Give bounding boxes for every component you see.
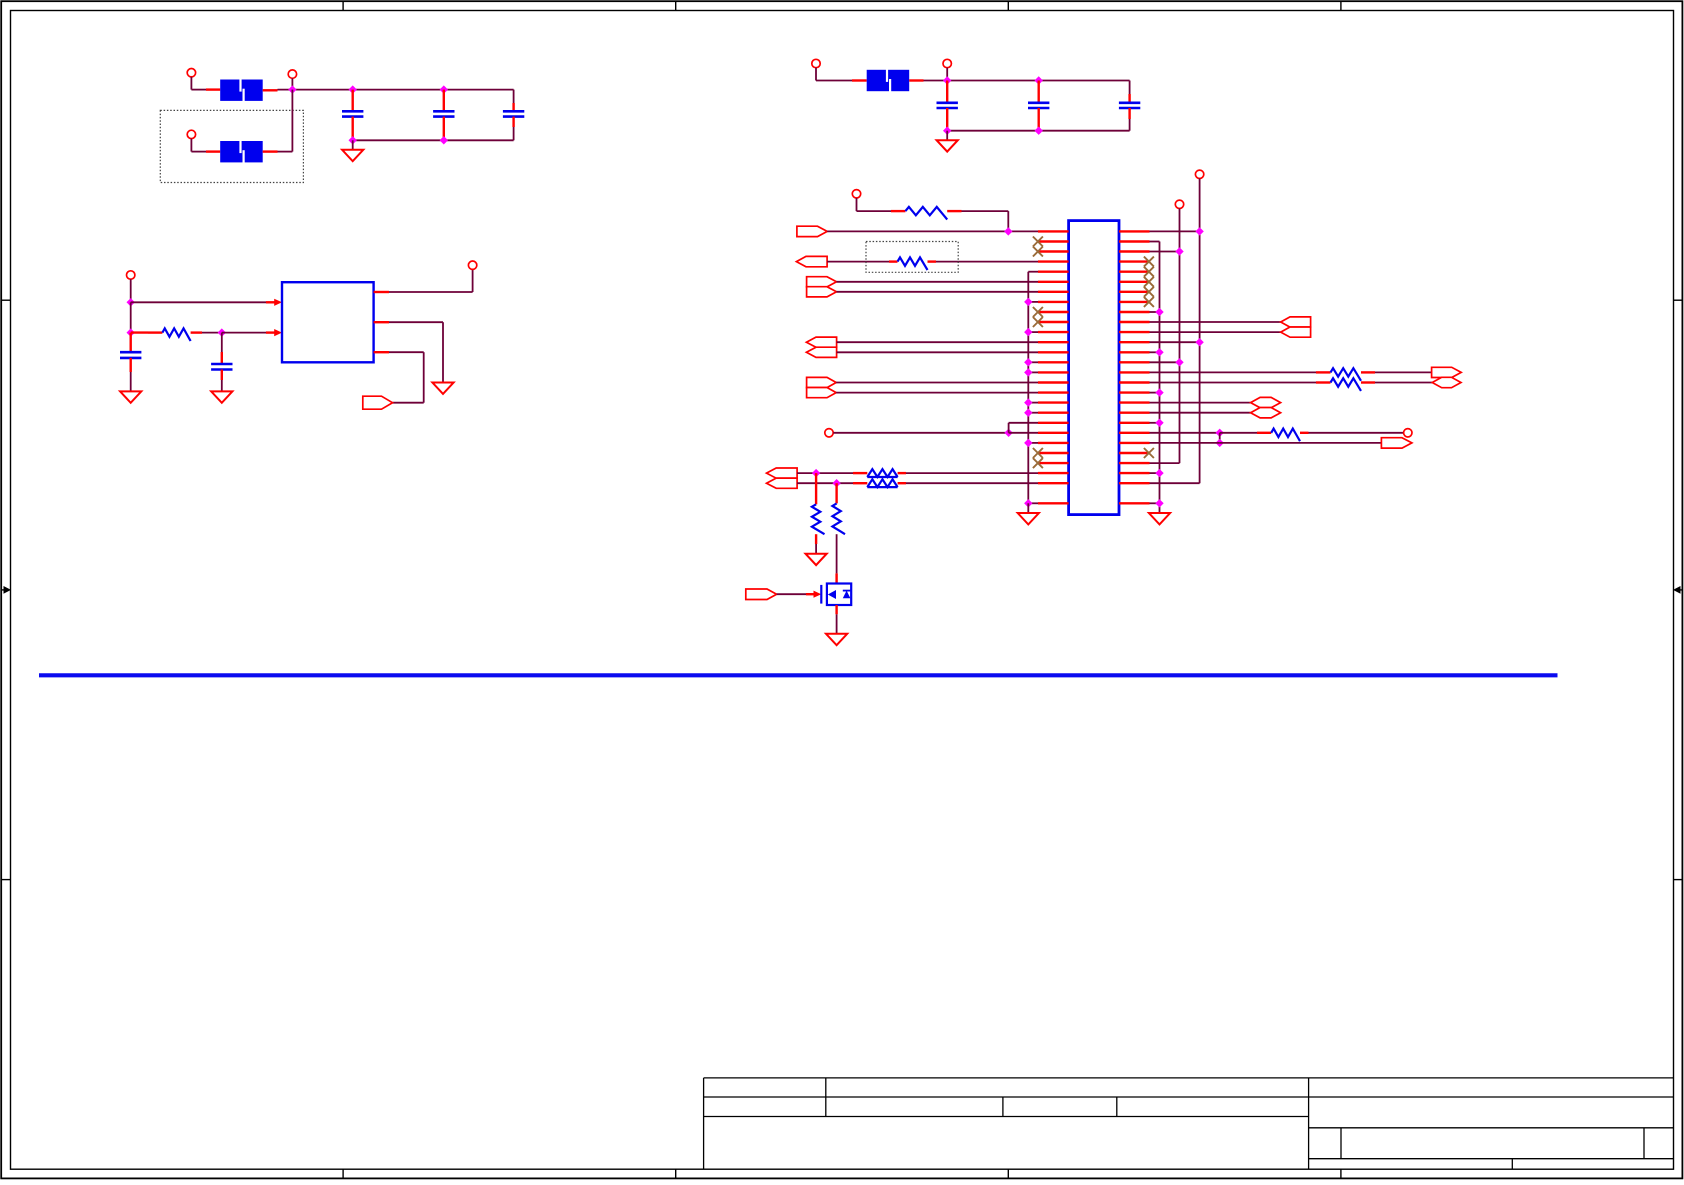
dashed outline box (160, 110, 303, 182)
transistor drain pin (835, 573, 837, 583)
port flag P4 (double) (806, 337, 836, 347)
junction (127, 328, 135, 336)
junction (1175, 247, 1183, 255)
wire net row20 (1009, 422, 1038, 424)
wire (906, 482, 1038, 484)
CN1 left pin 22 (1038, 442, 1069, 444)
CN1 right pin 16 (1119, 381, 1150, 383)
wire (1129, 81, 1131, 95)
port flag P10 (1432, 377, 1461, 387)
U1 output pin (374, 351, 389, 353)
wire (836, 614, 838, 634)
CN1 right pin 4 (1119, 260, 1150, 262)
wire (1219, 433, 1221, 443)
capacitor C2 pin (443, 117, 445, 141)
CN1 left pin 15 (1038, 371, 1069, 373)
junction (1175, 358, 1183, 366)
connector pin J3 (187, 130, 195, 138)
CN1 left pin 18 (1038, 401, 1069, 403)
wire net row7 (837, 291, 1039, 293)
connector pin J7 (468, 261, 476, 269)
title block (704, 1078, 1674, 1169)
gate arrowhead (814, 591, 822, 598)
junction (1024, 298, 1032, 306)
CN1 right pin 11 (1119, 331, 1150, 333)
CN1 left pin 12 (1038, 341, 1069, 343)
wire net row14 right (1150, 361, 1180, 363)
wire (857, 210, 892, 212)
wire (263, 89, 278, 91)
port flag P8 (double) (1281, 317, 1311, 327)
wire net row2 right (1150, 241, 1160, 243)
wire (291, 90, 293, 152)
ground (826, 634, 847, 645)
wire (1309, 432, 1404, 434)
U1 output pin (374, 321, 389, 323)
junction (943, 127, 951, 135)
capacitor C2 (433, 111, 454, 116)
capacitor C5 (1028, 103, 1049, 108)
wire (1009, 432, 1038, 434)
ferrite bead FB1 (220, 79, 263, 102)
junction (127, 298, 135, 306)
wire (806, 593, 814, 595)
wire net row24 right (1150, 462, 1180, 464)
wire net row25 (797, 472, 853, 474)
wire net row4 (827, 261, 889, 263)
transistor source pin (835, 605, 837, 614)
CN1 right pin 12 (1119, 341, 1150, 343)
CN1 left pin 27 (1038, 502, 1069, 504)
wire (130, 372, 132, 391)
wire (222, 332, 266, 334)
CN1 left pin 3 (1038, 250, 1069, 252)
capacitor C1 pin (352, 90, 354, 112)
CN1 right pin 18 (1119, 401, 1150, 403)
capacitor C3 pin (512, 117, 514, 127)
wire (947, 130, 1129, 132)
wire bus C (1199, 179, 1201, 484)
wire (1028, 271, 1038, 273)
wire (191, 331, 202, 333)
wire (1150, 311, 1160, 313)
CN1 left pin 11 (1038, 331, 1069, 333)
wire bus left (1027, 272, 1029, 504)
wire (962, 210, 1009, 212)
wire (353, 139, 514, 141)
wire (856, 198, 858, 211)
junction (1216, 439, 1224, 447)
CN1 right pin 19 (1119, 412, 1150, 414)
wire (946, 131, 948, 141)
input arrowhead (274, 299, 282, 306)
zone tick marks top and bottom edges (342, 1, 344, 10)
connector pin J6 (127, 271, 135, 279)
capacitor C3 (503, 111, 524, 116)
wire net row15 (1150, 371, 1317, 373)
transistor Q1 (MOSFET) (821, 584, 851, 606)
wire (891, 210, 905, 212)
wire (278, 89, 514, 91)
wire (777, 593, 806, 595)
ground (806, 554, 827, 565)
port flag P7 (746, 589, 777, 600)
junction (1195, 338, 1203, 346)
wire net row10 (1150, 321, 1281, 323)
wire net row16 (1150, 382, 1317, 384)
wire net row3 right (1150, 251, 1180, 253)
junction (1024, 439, 1032, 447)
junction (1155, 388, 1163, 396)
wire (1375, 382, 1432, 384)
wire net row21 right (1150, 432, 1220, 434)
CN1 right pin 20 (1119, 422, 1150, 424)
capacitor C7 (120, 352, 141, 358)
connector CN1 body (1069, 221, 1119, 515)
ground (937, 140, 958, 151)
wire (816, 80, 852, 82)
junction (1024, 409, 1032, 417)
no-connect X left pin 2 (1033, 237, 1043, 247)
resistor R8 (1331, 368, 1361, 381)
connector pin J8 (852, 190, 860, 198)
wire (889, 260, 898, 262)
wire (1008, 423, 1010, 433)
CN1 left pin 21 (1038, 432, 1069, 434)
wire (836, 534, 838, 573)
ground (120, 391, 141, 402)
wire (924, 80, 1130, 82)
wire (190, 77, 192, 90)
port flag P12 (1381, 438, 1412, 448)
CN1 right pin 21 (1119, 432, 1150, 434)
wire (1257, 432, 1271, 434)
capacitor C4 (937, 103, 958, 108)
wire (1361, 371, 1375, 373)
regulator IC U1 (282, 282, 374, 362)
CN1 left pin 26 (1038, 482, 1069, 484)
wire (442, 322, 444, 382)
wire (389, 321, 443, 323)
wire net row1 right (1150, 230, 1200, 232)
wire (1028, 371, 1038, 373)
no-connect X right pin 5 (1144, 267, 1154, 277)
wire (1150, 472, 1160, 474)
CN1 left pin 6 (1038, 281, 1069, 283)
junction (1155, 348, 1163, 356)
wire (1129, 119, 1131, 131)
wire (1028, 502, 1038, 504)
capacitor C4 pin (946, 81, 948, 103)
no-connect X left pin 3 (1033, 247, 1043, 257)
junction (349, 85, 357, 93)
port flag P11b (1251, 408, 1281, 418)
wire (936, 261, 1038, 263)
connector pin J5 (943, 59, 951, 67)
wire (1220, 432, 1257, 434)
no-connect X right pin 7 (1144, 287, 1154, 297)
port flag P5 (double) (807, 377, 837, 387)
junction (832, 479, 840, 487)
wire bus A (1159, 242, 1161, 514)
capacitor C6 pin (1128, 94, 1130, 103)
junction (812, 469, 820, 477)
capacitor C7 pin (129, 358, 131, 372)
CN1 left pin 16 (1038, 381, 1069, 383)
wire (130, 279, 132, 302)
ferrite bead FB2 (220, 141, 263, 164)
wire net row22 right (1150, 442, 1220, 444)
resistor R5 (867, 479, 897, 487)
wire (1028, 361, 1038, 363)
resistor R7 pin (835, 483, 837, 503)
CN1 right pin 14 (1119, 361, 1150, 363)
wire (291, 78, 293, 89)
resistor R2 (905, 207, 947, 220)
CN1 left pin 1 (1038, 230, 1069, 232)
wire net row12 (837, 341, 1038, 343)
wire (389, 291, 473, 293)
capacitor C5 pin (1037, 108, 1039, 131)
wire (206, 150, 220, 152)
CN1 left pin 7 (1038, 291, 1069, 293)
CN1 left pin 9 (1038, 311, 1069, 313)
wire net row21 (833, 432, 1008, 434)
connector pin J12 (1404, 429, 1412, 437)
resistor R10 (1271, 429, 1300, 442)
junction (1024, 328, 1032, 336)
CN1 right pin 6 (1119, 281, 1150, 283)
port flag P1 (797, 226, 827, 236)
junction (1155, 419, 1163, 427)
no-connect X left pin 23 (1033, 448, 1043, 458)
centering arrow right (1678, 589, 1682, 591)
CN1 left pin 17 (1038, 391, 1069, 393)
wire (898, 472, 906, 474)
resistor R1 (162, 328, 190, 341)
junction (440, 136, 448, 144)
wire (1361, 381, 1375, 383)
wire (278, 151, 293, 153)
wire (352, 140, 354, 150)
junction (288, 85, 296, 93)
connector pin J4 (812, 59, 820, 67)
CN1 right pin 17 (1119, 391, 1150, 393)
wire (853, 482, 867, 484)
wire (190, 139, 192, 152)
wire net row12 right (1150, 341, 1200, 343)
wire (1150, 392, 1160, 394)
resistor R6 pin (815, 473, 817, 504)
wire (472, 270, 474, 293)
capacitor C5 pin (1037, 81, 1039, 103)
wire (266, 331, 275, 333)
wire (191, 89, 206, 91)
junction (1216, 429, 1224, 437)
wire (1027, 503, 1029, 513)
connector pin J9 (825, 429, 833, 437)
CN1 right pin 24 (1119, 462, 1150, 464)
no-connect X right pin 8 (1144, 297, 1154, 307)
no-connect X left pin 10 (1033, 317, 1043, 327)
CN1 left pin 14 (1038, 361, 1069, 363)
wire (906, 472, 1038, 474)
junction (1035, 76, 1043, 84)
wire (1316, 381, 1331, 383)
CN1 right pin 8 (1119, 301, 1150, 303)
wire (1028, 301, 1038, 303)
wire (853, 472, 867, 474)
wire (1375, 371, 1432, 373)
wire (389, 351, 424, 353)
capacitor C1 (342, 111, 363, 116)
wire (1028, 412, 1038, 414)
wire (202, 332, 222, 334)
ground (211, 391, 232, 402)
junction (1155, 308, 1163, 316)
capacitor C1 pin (352, 117, 354, 141)
centering arrow left (1, 589, 5, 591)
CN1 right pin 26 (1119, 482, 1150, 484)
wire (1028, 331, 1038, 333)
CN1 right pin 5 (1119, 271, 1150, 273)
CN1 right pin 23 (1119, 452, 1150, 454)
CN1 left pin 23 (1038, 452, 1069, 454)
wire (1150, 351, 1160, 353)
CN1 right pin 7 (1119, 291, 1150, 293)
junction (1024, 499, 1032, 507)
no-connect X left pin 24 (1033, 458, 1043, 468)
ground (342, 150, 363, 161)
ferrite bead FB3 (867, 69, 910, 92)
connector pin J1 (187, 69, 195, 77)
capacitor C7 pin (129, 333, 131, 353)
junction (1024, 358, 1032, 366)
capacitor C6 (1119, 103, 1140, 108)
junction (218, 328, 226, 336)
junction (943, 76, 951, 84)
CN1 left pin 13 (1038, 351, 1069, 353)
wire net row26 right (1150, 482, 1200, 484)
wire net row19 (1150, 412, 1251, 414)
connector pin J2 (288, 70, 296, 78)
wire (393, 402, 424, 404)
input arrowhead (274, 329, 282, 336)
CN1 right pin 15 (1119, 371, 1150, 373)
capacitor C8 (211, 364, 232, 370)
junction (1024, 368, 1032, 376)
output port flag (363, 396, 393, 409)
port flag P2 (796, 256, 827, 266)
wire (946, 68, 948, 81)
wire (815, 544, 817, 554)
port flag P3 (double) (807, 277, 837, 287)
capacitor C8 pin (221, 352, 223, 364)
no-connect X right pin 4 (1144, 257, 1154, 267)
capacitor C2 pin (443, 90, 445, 112)
wire (206, 88, 220, 90)
CN1 right pin 9 (1119, 311, 1150, 313)
wire (513, 90, 515, 103)
connector pin J10 (1195, 170, 1203, 178)
connector pin J11 (1175, 200, 1183, 208)
dashed outline box around R3 (866, 242, 958, 273)
wire (1028, 402, 1038, 404)
CN1 left pin 2 (1038, 240, 1069, 242)
CN1 left pin 8 (1038, 301, 1069, 303)
wire net row11 (1150, 331, 1281, 333)
wire (928, 260, 937, 262)
wire net row13 (837, 351, 1038, 353)
wire (423, 352, 425, 403)
junction (1035, 127, 1043, 135)
wire bus B (1179, 209, 1181, 464)
wire (191, 151, 206, 153)
wire (815, 68, 817, 81)
CN1 right pin 22 (1119, 442, 1150, 444)
port flag P11a (1251, 397, 1281, 407)
wire (1028, 442, 1038, 444)
resistor R6 (812, 504, 825, 534)
resistor R3 (898, 257, 928, 270)
wire (1300, 432, 1309, 434)
wire net row18 (1150, 402, 1251, 404)
port flag P9 (1432, 367, 1462, 377)
ground (432, 383, 453, 394)
CN1 right pin 10 (1119, 321, 1150, 323)
wire (131, 331, 148, 333)
wire net row17 (836, 392, 1038, 394)
resistor R7 (832, 503, 845, 534)
wire (1150, 422, 1160, 424)
CN1 right pin 13 (1119, 351, 1150, 353)
wire net row16 (836, 382, 1038, 384)
CN1 right pin 27 (1119, 502, 1150, 504)
wire (148, 331, 162, 333)
junction (1024, 398, 1032, 406)
wire (131, 301, 266, 303)
CN1 right pin 25 (1119, 472, 1150, 474)
resistor R6 pin (815, 534, 817, 544)
port flag P6 (double) (767, 468, 798, 478)
CN1 left pin 5 (1038, 271, 1069, 273)
wire (221, 333, 223, 352)
junction (1155, 499, 1163, 507)
wire (263, 150, 278, 152)
wire (221, 380, 223, 391)
resistor R4 (867, 469, 897, 477)
CN1 right pin 3 (1119, 250, 1150, 252)
wire (947, 210, 961, 212)
junction (440, 85, 448, 93)
wire (1220, 442, 1382, 444)
junction (1155, 469, 1163, 477)
U1 output pin (374, 291, 389, 293)
wire (1007, 211, 1009, 231)
CN1 left pin 10 (1038, 321, 1069, 323)
ground (1018, 513, 1039, 524)
wire (1150, 502, 1160, 504)
CN1 right pin 2 (1119, 240, 1150, 242)
CN1 left pin 24 (1038, 462, 1069, 464)
junction (1004, 227, 1012, 235)
CN1 left pin 19 (1038, 412, 1069, 414)
capacitor C8 pin (221, 370, 223, 381)
CN1 left pin 4 (1038, 260, 1069, 262)
wire (1316, 371, 1331, 373)
CN1 left pin 25 (1038, 472, 1069, 474)
wire (898, 482, 906, 484)
